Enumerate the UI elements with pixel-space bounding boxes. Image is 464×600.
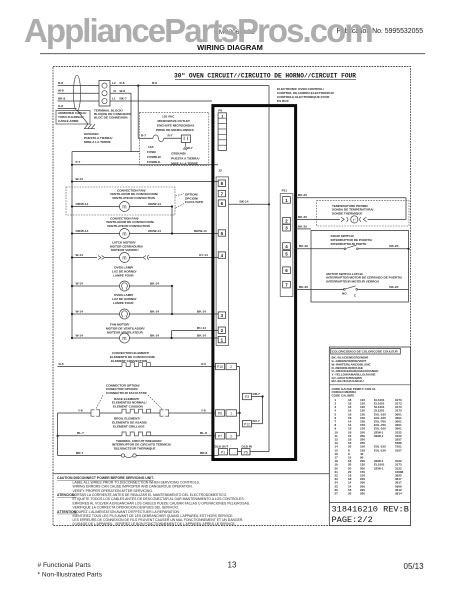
riser B <box>239 367 241 436</box>
armored cable oval <box>73 75 80 111</box>
wire BK-14 from J3-6 to internal riser <box>229 203 270 205</box>
svg-text:BK-20: BK-20 <box>298 224 307 228</box>
P11 pin 2 <box>283 217 291 224</box>
svg-text:MOTEUR VENTILATEUR: MOTEUR VENTILATEUR <box>107 330 143 334</box>
svg-text:ELEMENT CUISSON: ELEMENT CUISSON <box>113 404 144 408</box>
svg-text:INTERRUPTEUR PORTE: INTERRUPTEUR PORTE <box>331 242 367 246</box>
wire Y-8 bus to bake element <box>58 412 91 414</box>
fan motor M4 <box>120 333 130 343</box>
svg-text:2: 2 <box>230 365 232 369</box>
riser C <box>262 397 264 424</box>
wire BR-8 breaker to DLB OUT <box>136 455 218 457</box>
P11 pin 4 <box>283 243 291 250</box>
svg-text:OR-7: OR-7 <box>253 392 261 396</box>
svg-text:W-14: W-14 <box>76 333 84 337</box>
svg-text:PAGE:2/2: PAGE:2/2 <box>332 515 373 525</box>
option dashed enclosure <box>66 187 175 215</box>
svg-text:13: 13 <box>228 561 237 570</box>
J3 pin 5 <box>218 230 225 236</box>
internal supply riser <box>268 106 270 452</box>
svg-text:BK-14: BK-14 <box>150 333 159 337</box>
connector P8 strip <box>218 113 226 151</box>
wire R-7 to fuse <box>138 137 153 139</box>
caution divider line <box>53 473 329 475</box>
wire OR/W-14 bus to fan1 <box>72 206 120 208</box>
svg-text:P8: P8 <box>218 108 222 112</box>
svg-text:L2: L2 <box>112 81 116 85</box>
broil element heater <box>122 432 151 436</box>
wire OR-7 from P3 <box>252 396 263 398</box>
svg-text:t°: t° <box>353 217 356 222</box>
svg-text:VENTILATEUR CONVECTION: VENTILATEUR CONVECTION <box>112 196 156 200</box>
wire probe to riser <box>368 218 407 220</box>
wire BK-14 lamp1 to junction <box>129 285 172 287</box>
svg-text:R-7: R-7 <box>188 146 193 150</box>
wire W-8 from N to outlet box <box>110 92 131 94</box>
connector P12 <box>243 421 252 427</box>
J3 pin 4 <box>218 252 225 258</box>
svg-text:R-8: R-8 <box>120 81 125 85</box>
svg-text:ELEMENT GRILLAGE: ELEMENT GRILLAGE <box>113 425 145 429</box>
svg-text:BK-20: BK-20 <box>389 244 398 248</box>
P11 pin 7 <box>283 281 291 288</box>
revision box divider <box>329 502 410 504</box>
svg-text:P11: P11 <box>282 189 288 193</box>
svg-text:OR/W-14: OR/W-14 <box>148 202 161 206</box>
svg-text:NO: NO <box>342 292 347 296</box>
svg-text:BL-7: BL-7 <box>77 431 84 435</box>
svg-text:BR-7: BR-7 <box>76 451 83 455</box>
wire BK-20 P11-3 to door box <box>296 228 311 230</box>
connector P1 <box>219 449 228 455</box>
wire table rows <box>335 398 404 496</box>
svg-text:BK-14: BK-14 <box>150 309 159 313</box>
svg-text:MOTEUR VERROU: MOTEUR VERROU <box>111 248 139 252</box>
wire R-8 from L2 to electronic oven control <box>110 85 269 87</box>
svg-text:2: 2 <box>230 435 232 439</box>
svg-text:W-14: W-14 <box>76 309 84 313</box>
J3 pin 2 <box>218 327 225 333</box>
svg-text:W-14: W-14 <box>76 253 84 257</box>
svg-text:m: m <box>122 205 126 211</box>
wire BK-20 P11-1 probe return <box>296 197 406 199</box>
wire BL-8 broil to P7 <box>147 435 216 437</box>
connector P6 pair <box>216 410 225 416</box>
svg-text:ENCHUFE MICROONDAS: ENCHUFE MICROONDAS <box>157 124 194 128</box>
svg-text:BU-7: BU-7 <box>253 419 260 423</box>
probe connector chevrons right <box>360 217 367 222</box>
svg-text:BK-20: BK-20 <box>389 285 398 289</box>
svg-text:FUSE/: FUSE/ <box>147 150 156 154</box>
fuse F1 15A <box>153 135 164 142</box>
microwave outlet dashed enclosure <box>140 112 209 165</box>
svg-text:FACULTATIF: FACULTATIF <box>185 200 203 204</box>
wire W-14 to J3-8 <box>72 181 218 183</box>
svg-text:P3: P3 <box>245 395 249 399</box>
convection fan motor M2 <box>120 229 130 239</box>
wire W-14 bus to fan motor <box>72 337 120 339</box>
wire BL-7 bus to broil element <box>58 435 122 437</box>
temperature probe RT1 <box>351 216 358 223</box>
wire P-7 to DLB <box>72 164 218 166</box>
svg-text:FUSIBLE.: FUSIBLE. <box>147 160 161 164</box>
svg-text:W-14: W-14 <box>76 281 84 285</box>
svg-text:W-14: W-14 <box>76 177 84 181</box>
latch motor M3 <box>120 253 130 263</box>
color code header box <box>331 348 401 354</box>
svg-text:BU-14: BU-14 <box>197 326 206 330</box>
svg-text:LAMPE FOUR: LAMPE FOUR <box>113 273 134 277</box>
svg-text:L1: L1 <box>112 97 116 101</box>
wire R-7 fuse to outlet <box>164 137 182 139</box>
svg-text:BK-14: BK-14 <box>197 309 206 313</box>
svg-text:O-5: O-5 <box>59 362 64 366</box>
ground wire diagonal <box>77 110 88 124</box>
wire Y-8 bake to P6 <box>169 412 216 414</box>
wire R-8 drop into control box <box>268 86 270 106</box>
P11 pin 6 <box>283 267 291 274</box>
connector P7 pair <box>216 433 225 439</box>
wire OR/W-14 bus to fan2 <box>72 233 120 235</box>
svg-text:m: m <box>122 256 126 262</box>
wire R-7 riser from R-8 feed <box>137 85 139 87</box>
svg-text:P7: P7 <box>218 435 222 439</box>
wire W-8 from supply to terminal block <box>58 92 100 94</box>
svg-text:120 VAC: 120 VAC <box>162 115 175 119</box>
thermal circuit breaker CB1 <box>121 454 124 457</box>
bake connector left <box>91 410 100 416</box>
svg-text:J3: J3 <box>218 169 222 173</box>
wire BK-14 lamp2 to J3-3 <box>129 313 218 315</box>
wire BR/W-14 fan2 to J3-5 <box>129 233 218 235</box>
svg-text:P10: P10 <box>217 365 223 369</box>
wire BK-20 P11-4 door switch <box>296 248 345 250</box>
wire OR/W-14 fan1 to junction <box>129 206 172 208</box>
svg-text:BK-7: BK-7 <box>120 97 127 101</box>
wire DLB OUT to DLB IN <box>238 451 242 453</box>
svg-text:WIRING DIAGRAM: WIRING DIAGRAM <box>197 43 263 52</box>
svg-text:BK-20: BK-20 <box>298 193 307 197</box>
outlet receptacle symbol <box>181 135 190 142</box>
wire BU-7 from P12 <box>252 423 263 425</box>
wire BK-20 P11-7 latch switch <box>296 288 344 290</box>
J3 pin 3 <box>218 312 225 318</box>
svg-text:OR/W-14: OR/W-14 <box>76 202 89 206</box>
svg-text:OR/W-14: OR/W-14 <box>148 229 161 233</box>
wire R-8 from supply to terminal block <box>58 85 100 87</box>
svg-text:BK-20: BK-20 <box>299 285 308 289</box>
svg-text:BK-14: BK-14 <box>150 281 159 285</box>
svg-text:PRISE DE MICRO-ONDES: PRISE DE MICRO-ONDES <box>156 128 194 132</box>
wire BK-8 from supply to terminal block <box>58 100 100 102</box>
P11 pin 1 <box>283 197 291 204</box>
wire BK-14 fan motor to J3-1 <box>129 337 218 339</box>
J3 pin 1 <box>218 336 225 342</box>
svg-text:DLB OUT: DLB OUT <box>215 444 229 448</box>
svg-text:GROUND/: GROUND/ <box>171 152 186 156</box>
svg-text:BR/W-14: BR/W-14 <box>194 229 207 233</box>
page frame <box>53 67 411 526</box>
wire BU-14 branch to J3-2 <box>172 330 218 332</box>
wire O-5 element to P10 <box>147 366 216 368</box>
svg-text:P12: P12 <box>244 422 250 426</box>
svg-text:BK-14: BK-14 <box>197 333 206 337</box>
wire W-14 bus to lamp2 <box>72 313 120 315</box>
oven lamp 2 <box>120 309 130 319</box>
wire O-5 to convection element <box>58 366 123 368</box>
wire G-8 ground lead <box>58 108 77 110</box>
terminal block TB1 <box>99 81 110 107</box>
svg-text:05/13: 05/13 <box>404 562 425 571</box>
svg-text:BK-20: BK-20 <box>298 215 307 219</box>
header rule <box>40 53 425 55</box>
svg-text:P1: P1 <box>221 450 225 454</box>
svg-text:VENTILATEUR CONVECTION: VENTILATEUR CONVECTION <box>107 224 151 228</box>
svg-text:R-7: R-7 <box>141 134 146 138</box>
wire P10 to riser B <box>237 366 240 368</box>
element supply bus <box>57 413 59 456</box>
P11 pin 5 <box>283 250 291 257</box>
color code divider <box>329 384 410 386</box>
caution text block <box>57 476 250 526</box>
svg-text:GY-14: GY-14 <box>199 253 208 257</box>
door switch enclosure <box>311 231 409 303</box>
svg-text:BK-14: BK-14 <box>240 200 249 204</box>
connector P10 pair <box>216 363 225 369</box>
bake element heater <box>122 409 151 413</box>
wire BK-7 from L1 to control <box>110 100 212 102</box>
svg-text:1: 1 <box>230 412 232 416</box>
svg-text:O-5: O-5 <box>201 362 206 366</box>
svg-text:COLOR/CODIGO DE COLOR/CODE COU: COLOR/CODIGO DE COLOR/CODE COULEUR <box>332 350 399 354</box>
svg-text:DLB IN: DLB IN <box>242 444 253 448</box>
svg-text:MICROWAVE OUTLET: MICROWAVE OUTLET <box>158 119 191 123</box>
svg-text:30" OVEN CIRCUIT//CIRCUITO DE: 30" OVEN CIRCUIT//CIRCUITO DE HORNO//CIR… <box>174 73 356 80</box>
diagram title underline <box>175 78 356 80</box>
svg-text:m: m <box>122 232 126 238</box>
J3 pin 7 <box>218 190 225 196</box>
svg-text:15A: 15A <box>148 145 154 149</box>
svg-text:R-7: R-7 <box>168 134 173 138</box>
neutral feed wire to outlet enclosure <box>72 151 140 153</box>
J3 pin 8 <box>218 180 225 186</box>
oven lamp 1 <box>120 281 130 291</box>
svg-text:LAMPE FOUR: LAMPE FOUR <box>113 301 134 305</box>
svg-text:R-8: R-8 <box>58 81 63 85</box>
svg-text:PUESTA A TIERRA/: PUESTA A TIERRA/ <box>171 157 199 161</box>
svg-text:DISJONCTEUR THERMIQUE: DISJONCTEUR THERMIQUE <box>114 447 156 451</box>
junction riser between lamp wires <box>171 286 173 314</box>
wire BK-20 P11-2 to probe <box>296 218 340 220</box>
svg-text:* Non-Illustrated Parts: * Non-Illustrated Parts <box>38 571 103 578</box>
latch switch S2 <box>343 289 345 291</box>
svg-text:CONNECTEUR FACULTATIF: CONNECTEUR FACULTATIF <box>106 391 147 395</box>
wire W-14 bus to latch motor <box>72 257 97 259</box>
svg-text:D'USAGE DE L'APPAREIL. VERIFIE: D'USAGE DE L'APPAREIL. VERIFIEZ LE BON F… <box>73 522 236 526</box>
wire BR-7 bus to thermal breaker <box>58 455 121 457</box>
electronic oven control box <box>213 106 296 460</box>
wire GY-14 latch motor to J3-4 <box>129 257 142 259</box>
ground symbol (mains) <box>84 124 95 129</box>
svg-text:Y-8: Y-8 <box>78 408 83 412</box>
J3 pin 6 <box>218 200 225 206</box>
svg-text:MISE A LA TERRE: MISE A LA TERRE <box>84 140 111 144</box>
svg-text:Y-8: Y-8 <box>201 408 206 412</box>
svg-text:R-8: R-8 <box>152 81 157 85</box>
svg-text:1: 1 <box>221 115 223 119</box>
svg-text:ELEMENT CONVECTION: ELEMENT CONVECTION <box>111 359 148 363</box>
convection element heater <box>122 363 151 367</box>
probe connector chevrons left <box>341 217 348 222</box>
svg-text:318416210 REV:B: 318416210 REV:B <box>332 504 409 514</box>
convection fan motor M1 <box>120 202 130 212</box>
connector P3 <box>243 393 252 399</box>
junction riser between fan wires <box>171 207 173 234</box>
wire color code box <box>329 347 410 526</box>
svg-text:W-8: W-8 <box>120 89 126 93</box>
svg-text:P-7: P-7 <box>76 160 81 164</box>
svg-text:INTERRUPTEUR MOTEUR VERROU: INTERRUPTEUR MOTEUR VERROU <box>326 279 379 283</box>
P11 pin 3 <box>283 224 291 231</box>
svg-text:BK-8: BK-8 <box>58 96 65 100</box>
connector P5 <box>242 449 251 455</box>
outlet ground symbol <box>183 147 188 150</box>
internal riser to DLB IN <box>250 451 269 453</box>
svg-text:BU.-BLUE/AZUL/BLEU: BU.-BLUE/AZUL/BLEU <box>332 379 364 383</box>
svg-text:m: m <box>122 336 126 342</box>
temperature probe dashed enclosure <box>317 201 409 226</box>
svg-text:P6: P6 <box>218 412 222 416</box>
door switch S1 <box>344 248 346 250</box>
svg-text:OR/W-14: OR/W-14 <box>76 229 89 233</box>
svg-text:BL-8: BL-8 <box>200 431 207 435</box>
svg-text:BR-8: BR-8 <box>200 451 207 455</box>
svg-text:G-8: G-8 <box>58 104 63 108</box>
svg-text:ES BOX: ES BOX <box>277 99 290 103</box>
bake connector right <box>160 410 169 416</box>
armored cable label box <box>56 111 90 125</box>
svg-text:W-8: W-8 <box>58 89 64 93</box>
svg-text:FUSIBLE/: FUSIBLE/ <box>147 155 161 159</box>
svg-text:# Functional Parts: # Functional Parts <box>38 562 92 569</box>
left neutral bus <box>71 152 73 338</box>
svg-text:SONDE THERMIQUE: SONDE THERMIQUE <box>332 211 362 215</box>
wire W-14 bus to lamp1 <box>72 285 120 287</box>
svg-text:BLOC DE CONNEXION: BLOC DE CONNEXION <box>94 116 128 120</box>
latch connector chevrons <box>98 256 105 260</box>
svg-text:CABLE ARME: CABLE ARME <box>58 119 79 123</box>
svg-text:BK-20: BK-20 <box>299 244 308 248</box>
svg-text:P5: P5 <box>244 450 248 454</box>
